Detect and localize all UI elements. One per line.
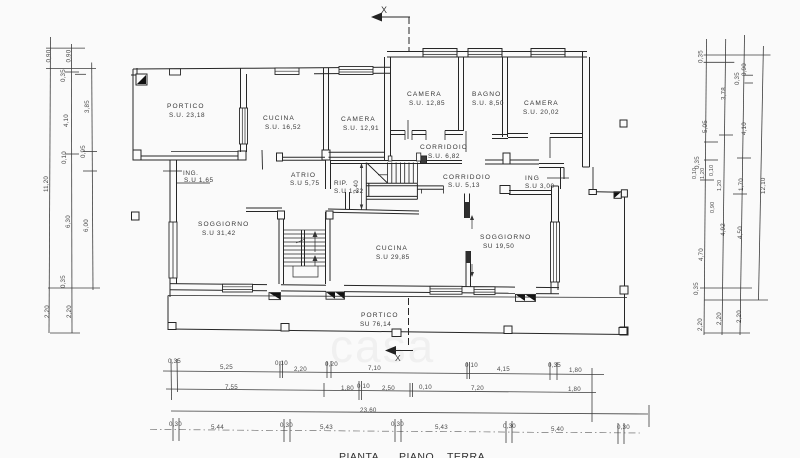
svg-text:2,50: 2,50 (382, 385, 395, 392)
svg-text:1,80: 1,80 (569, 367, 582, 374)
svg-text:0,90: 0,90 (46, 49, 53, 62)
svg-text:PIANO: PIANO (399, 451, 434, 458)
svg-text:CUCINA: CUCINA (376, 245, 408, 252)
wall camera1291 / right block divider (385, 57, 391, 160)
svg-text:4,50: 4,50 (737, 226, 744, 239)
svg-text:S.U 1,65: S.U 1,65 (184, 177, 214, 184)
window camera2002 top (531, 49, 565, 58)
ing 3,00 door dash (547, 177, 569, 179)
svg-text:0,10: 0,10 (357, 383, 370, 390)
svg-text:5,44: 5,44 (211, 424, 224, 431)
svg-text:BAGNO: BAGNO (472, 91, 501, 98)
row3 chain line (171, 411, 648, 414)
svg-text:0,20: 0,20 (325, 361, 338, 368)
right block top wall (387, 52, 587, 58)
mid band wall under corridoio 6,82 (331, 153, 564, 189)
svg-text:SU 76,14: SU 76,14 (360, 321, 391, 328)
threshold marker soggiorno19 door (516, 294, 536, 301)
stair top jamb tabs (388, 156, 392, 161)
svg-text:5,43: 5,43 (435, 424, 448, 431)
svg-text:0,10: 0,10 (692, 168, 698, 179)
bagno bottom wall + door (466, 131, 508, 152)
svg-text:0,35: 0,35 (693, 282, 700, 295)
svg-text:2,40: 2,40 (353, 180, 360, 193)
svg-text:23,60: 23,60 (360, 407, 377, 414)
svg-text:CAMERA: CAMERA (407, 91, 442, 98)
right block outer right wall (583, 52, 590, 168)
soggiorno19 right wall upper (552, 186, 559, 222)
svg-text:0,35: 0,35 (694, 156, 701, 169)
wall bagno/camera2002 divider (503, 57, 508, 137)
window camera1291 top (339, 67, 373, 75)
svg-text:0,90: 0,90 (66, 49, 73, 62)
svg-text:4,15: 4,15 (497, 366, 510, 373)
svg-text:0,35: 0,35 (60, 69, 67, 82)
svg-text:6,30: 6,30 (65, 215, 72, 228)
svg-text:ATRIO: ATRIO (291, 172, 316, 179)
svg-text:4,92: 4,92 (720, 223, 727, 236)
svg-text:TERRA: TERRA (447, 451, 485, 458)
svg-text:4,70: 4,70 (698, 248, 705, 261)
svg-text:0,10: 0,10 (709, 165, 715, 176)
svg-text:ING.: ING. (183, 170, 199, 177)
pillar marker portico (half black square) (136, 74, 147, 85)
svg-text:S.U. 6,82: S.U. 6,82 (428, 153, 460, 160)
bottom dimension labels (168, 358, 630, 433)
svg-text:5,05: 5,05 (702, 120, 709, 133)
svg-text:SOGGIORNO: SOGGIORNO (480, 234, 531, 241)
svg-text:0,10: 0,10 (465, 362, 478, 369)
svg-text:CORRIDOIO: CORRIDOIO (443, 174, 491, 181)
wall under upper stairs (366, 183, 417, 186)
wall camera1285/bagno divider (459, 57, 464, 131)
svg-text:3,78: 3,78 (721, 87, 728, 100)
svg-text:0,30: 0,30 (617, 424, 630, 431)
svg-text:5,40: 5,40 (551, 426, 564, 433)
svg-text:2,20: 2,20 (294, 366, 307, 373)
camera1291 bottom wall (329, 152, 385, 157)
wall cucina/camera divider (322, 68, 330, 160)
svg-text:11,20: 11,20 (43, 176, 50, 192)
svg-text:PORTICO: PORTICO (361, 312, 399, 319)
bottom dimension chain lines and ticks (150, 359, 649, 444)
cucina door leaf (261, 150, 264, 170)
svg-text:SU 19,50: SU 19,50 (483, 243, 514, 250)
svg-text:4,10: 4,10 (63, 114, 70, 127)
top-mid block top wall (cucina + camera 12,91) (246, 67, 390, 74)
svg-text:0,30: 0,30 (503, 423, 516, 430)
svg-text:S.U. 12,85: S.U. 12,85 (409, 100, 445, 107)
portico pillars bottom (168, 323, 627, 337)
portico bottom wall double (133, 150, 246, 160)
svg-text:0,35: 0,35 (734, 72, 741, 85)
svg-text:S.U. 5,13: S.U. 5,13 (448, 182, 480, 189)
svg-text:6,00: 6,00 (83, 219, 90, 232)
closet wall right of rip (346, 192, 350, 210)
threshold marker soggiorno31 door (269, 293, 281, 300)
atrio/cucina29 left wall pieces (246, 208, 419, 214)
svg-text:2,20: 2,20 (716, 312, 723, 325)
soggiorno31 left wall with window (169, 160, 177, 297)
svg-text:1,20: 1,20 (717, 180, 723, 191)
svg-text:2,20: 2,20 (736, 310, 743, 323)
row4 chain line (150, 430, 640, 434)
left dimension labels (43, 49, 91, 318)
svg-text:S.U. 16,52: S.U. 16,52 (265, 124, 301, 131)
landing under (293, 266, 318, 277)
camera2002 bottom wall + door (508, 134, 583, 159)
corridoio 5,13 south wall (366, 183, 443, 199)
section marker X bottom (385, 298, 413, 363)
upper stairs (367, 153, 421, 183)
window camera1285 top (423, 49, 457, 58)
svg-text:S.U 31,42: S.U 31,42 (202, 230, 236, 237)
svg-text:0,90: 0,90 (710, 202, 716, 213)
threshold marker cucina29 door (326, 292, 345, 299)
lower stairs block (278, 211, 334, 284)
svg-text:SOGGIORNO: SOGGIORNO (198, 221, 249, 228)
stair enclosure left wall (366, 163, 369, 211)
left dimension chain lines and ticks (46, 37, 100, 333)
svg-text:0,35: 0,35 (168, 358, 181, 365)
row1 chain line (163, 371, 604, 375)
svg-text:0,10: 0,10 (275, 360, 288, 367)
corner notch top-left (131, 68, 137, 75)
arrows (314, 232, 316, 252)
camera1285 bottom wall + door (390, 120, 463, 140)
svg-text:12,10: 12,10 (760, 177, 767, 194)
rip dim arrow 2,40 (360, 163, 363, 210)
svg-text:0,10: 0,10 (419, 384, 432, 391)
svg-text:0,30: 0,30 (391, 421, 404, 428)
right terrace (589, 190, 628, 336)
window under cucina29 (430, 286, 462, 294)
svg-text:CAMERA: CAMERA (341, 116, 376, 123)
rip walls (326, 160, 331, 189)
svg-text:3,85: 3,85 (84, 100, 91, 113)
svg-text:S.U. 20,02: S.U. 20,02 (523, 109, 559, 116)
small square right of building (620, 120, 627, 127)
atrio top wall + pillar (277, 153, 326, 161)
svg-text:RIP.: RIP. (334, 180, 348, 187)
svg-text:2,20: 2,20 (697, 318, 704, 331)
small window marker portico top (170, 69, 181, 75)
svg-text:7,20: 7,20 (471, 385, 484, 392)
svg-text:S.U. 23,18: S.U. 23,18 (169, 112, 205, 119)
svg-text:5,43: 5,43 (320, 424, 333, 431)
svg-text:CORRIDOIO: CORRIDOIO (420, 144, 468, 151)
stair diagonal (367, 163, 388, 183)
svg-text:0,90: 0,90 (741, 63, 748, 76)
bottom wall band with openings (sloped) (170, 284, 559, 294)
svg-text:0,30: 0,30 (280, 422, 293, 429)
svg-text:5,25: 5,25 (220, 364, 233, 371)
portico right wall / cucina left wall with window (240, 68, 248, 152)
right dimension chain lines and ticks (700, 35, 771, 335)
svg-text:7,10: 7,10 (368, 365, 381, 372)
svg-text:1,80: 1,80 (341, 385, 354, 392)
svg-text:S.U. 8,50: S.U. 8,50 (472, 100, 504, 107)
treads (284, 230, 326, 266)
right dimension labels (692, 50, 767, 331)
ing 1,65 label pointer + underline (163, 171, 210, 183)
section marker X top (371, 5, 410, 52)
svg-text:7,55: 7,55 (225, 384, 238, 391)
svg-text:0,10: 0,10 (61, 151, 68, 164)
door swing arrows (471, 216, 473, 229)
svg-text:0,35: 0,35 (60, 275, 67, 288)
svg-text:0,30: 0,30 (169, 421, 182, 428)
pillar marker right (half black) (614, 190, 627, 199)
window bagno top (468, 49, 502, 58)
svg-text:X: X (395, 353, 401, 363)
small square left of soggiorno (132, 212, 140, 220)
svg-text:ING: ING (525, 175, 540, 182)
portico outline (131, 68, 246, 160)
svg-text:1,20: 1,20 (700, 168, 706, 179)
svg-text:0,35: 0,35 (698, 50, 705, 63)
svg-text:CUCINA: CUCINA (263, 115, 295, 122)
svg-text:S.U. 12,91: S.U. 12,91 (343, 125, 379, 132)
svg-text:1,70: 1,70 (738, 178, 745, 191)
svg-text:S.U 3,00: S.U 3,00 (525, 183, 555, 190)
svg-text:PIANTA: PIANTA (339, 451, 379, 458)
svg-text:2,20: 2,20 (44, 305, 51, 318)
svg-text:S.U 5,75: S.U 5,75 (290, 180, 320, 187)
right wall lower stub (592, 167, 594, 190)
svg-text:0,35: 0,35 (548, 362, 561, 369)
soggiorno19 right wall with window (551, 222, 560, 294)
window cucina top (275, 68, 299, 75)
svg-text:0,95: 0,95 (80, 145, 87, 158)
wall cucina/soggiorno19 upper (465, 194, 471, 219)
row1 ticks (170, 359, 173, 400)
svg-text:2,20: 2,20 (66, 305, 73, 318)
row2 chain line (166, 389, 596, 393)
soggiorno19 top wall (500, 186, 552, 195)
svg-text:CAMERA: CAMERA (524, 100, 559, 107)
window under soggiorno31 (223, 284, 253, 292)
svg-text:PORTICO: PORTICO (167, 103, 205, 110)
svg-text:S.U 29,85: S.U 29,85 (376, 254, 410, 261)
portico bottom terrace lines (168, 296, 627, 335)
svg-text:4,10: 4,10 (741, 122, 748, 135)
cucina/soggiorno19 divider lower (466, 215, 474, 287)
svg-text:1,80: 1,80 (568, 386, 581, 393)
window under soggiorno19 (474, 287, 495, 295)
